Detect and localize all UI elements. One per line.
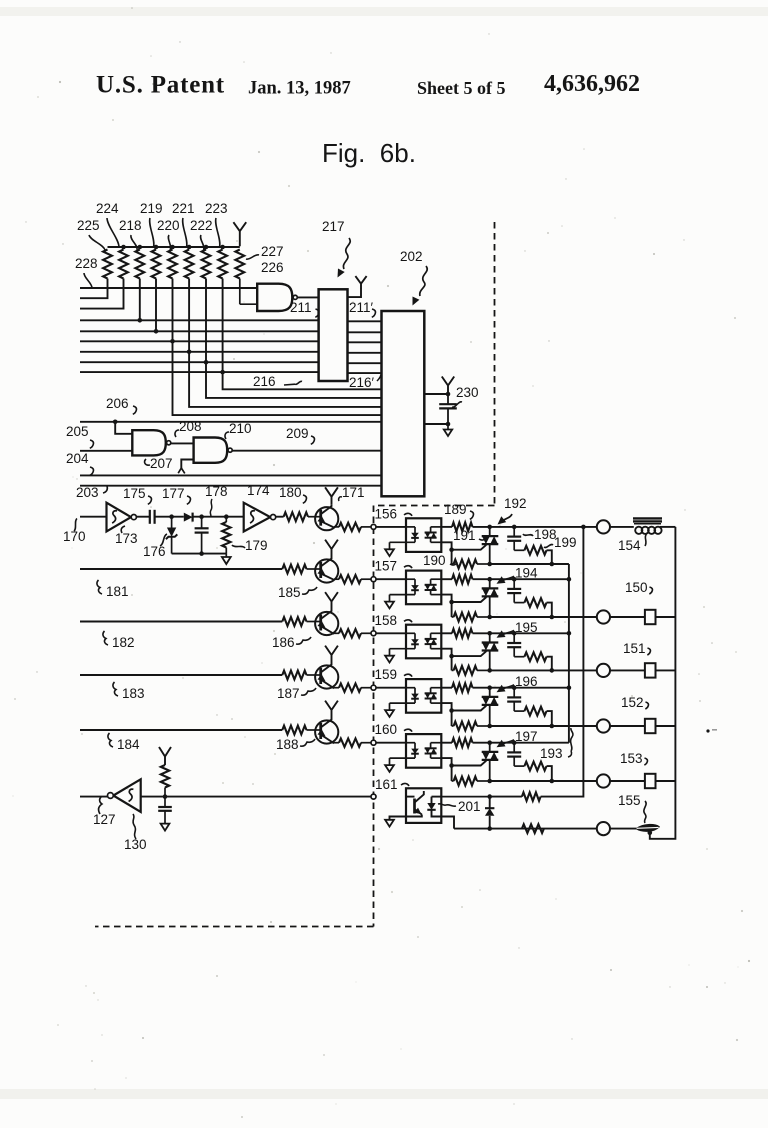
label 206 [106,396,136,414]
wire gate to triac [452,545,487,550]
label 230 [452,385,479,407]
junction dot bottom rail 178 [199,551,204,556]
snubber capacitor ch1 [507,527,524,550]
ground ch6 filter [161,824,170,831]
small terminal (opto 161 input) [371,794,376,799]
big terminal ch3 [597,664,610,677]
svg-text:188: 188 [276,737,299,752]
wire heater to right rail [660,526,675,528]
label 177 [162,486,190,504]
wire line 206 [80,421,382,423]
wire gate node down [451,602,453,617]
svg-text:227: 227 [261,244,284,259]
resistor 223 [218,250,227,279]
label 161 [375,777,409,792]
opto 159 LED [390,688,419,703]
resistor 222 [202,250,211,279]
junction dot bus L7 [187,350,192,355]
svg-text:221: 221 [172,201,195,216]
wire bus line L7 (between 217 and 202) [348,352,382,354]
opto 158 output element [425,633,442,648]
svg-text:205: 205 [66,424,89,439]
junction dot triac bottom ch2 [487,615,492,620]
triac ch3 [482,633,499,670]
snubber capacitor ch4 [507,688,524,711]
svg-text:154: 154 [618,538,641,553]
svg-text:217: 217 [322,219,345,234]
svg-text:222: 222 [190,218,213,233]
junction dot on rail at resistor 4 [154,245,159,250]
junction dot triac top ch5 [487,740,492,745]
wire gate node down [451,656,453,670]
wire bus line L5 (between 217 and 202) [348,331,382,333]
label 180 [279,485,306,503]
junction dot snubber top ch1 [512,525,517,530]
wire resistor to triac top [473,526,490,528]
svg-text:211: 211 [290,300,312,315]
svg-text:206: 206 [106,396,129,411]
label 223 [205,201,228,247]
resistor gate-shunt ch1 [452,560,490,569]
junction dot bus L4 [138,318,143,323]
opto 157 LED [390,579,419,594]
resistor 221 [185,250,194,279]
wire fan line to 202 pin 3 [189,352,381,407]
resistor 219 [152,250,161,279]
transistor 186 with antenna and emitter resistor [308,592,371,637]
junction dot gate node ch2 [449,600,454,605]
ground below cap 230 [444,424,452,436]
label 185 [278,585,317,600]
svg-text:186: 186 [272,635,295,650]
svg-text:152: 152 [621,695,644,710]
label 217 with arrow [322,219,350,278]
svg-text:225: 225 [77,218,100,233]
resistor gate-series ch3 [452,629,473,638]
diode 177 [184,513,193,522]
capacitor ch6 filter [158,797,172,824]
wire fan line to 202 pin 4 [173,341,382,415]
label 211' [349,300,375,317]
junction dot rail A ch2 [567,577,572,582]
label 186 [272,635,311,650]
junction dot gate node ch5 [449,763,454,768]
big terminal ch2 [597,610,610,623]
svg-text:184: 184 [117,737,140,752]
junction dot node 176 [169,514,174,519]
svg-text:156: 156 [375,506,398,521]
wire line 205 (NAND207 input B) [80,450,132,452]
junction dot on rail at resistor 3 [138,245,143,250]
label 190 [423,553,457,568]
junction dot triac top ch1 [487,525,492,530]
junction dot bus L8 [204,360,209,365]
wire fan line to 202 pin 2 [206,362,382,398]
scan speck [706,729,717,733]
wire opto out to resistor [441,632,452,634]
label 130 [124,814,147,852]
wire gate to triac [452,651,487,656]
label 199 [544,535,577,550]
wire line 203 [80,485,382,487]
wire cap175 to diode 177 [155,516,184,518]
wire load to right rail [656,725,676,727]
junction dot triac bottom ch1 [487,562,492,567]
schmitt inverter 174 [244,503,276,532]
junction dot snubber drop ch4 [550,724,555,729]
snubber resistor ch5 [524,762,551,781]
transistor 187 with antenna and emitter resistor [308,646,371,692]
svg-text:199: 199 [554,535,577,550]
label 175 [123,486,151,504]
wire input line 182 [80,621,282,623]
antenna at top rail [233,222,246,246]
resistor 225 [103,250,112,279]
wire ch3 gate row to terminal [490,669,597,671]
wire gate node down [451,550,453,564]
resistor ch6 filter [161,765,169,797]
svg-text:177: 177 [162,486,185,501]
opto 158 LED [390,633,419,648]
junction dot snubber top ch5 [512,740,517,745]
junction dot on rail at resistor 6 [187,245,192,250]
wire opto161 top out [441,796,489,798]
resistor base Q188 [282,726,308,735]
svg-text:218: 218 [119,218,142,233]
wire gate to triac [452,597,487,602]
wire bus line L7 [80,351,319,353]
wire fan line to 202 pin 1 [223,372,382,389]
wire line 204 [80,474,382,476]
label 153 [620,751,647,766]
small terminal (opto 160 input) [371,740,376,745]
wire bus line 228a (NAND input) [80,287,257,289]
opto 156 output element [425,527,442,542]
wire resistor column 8 to bus [222,279,224,373]
wire bus line L6 [80,340,319,342]
wire 202 to cap 230 bottom [424,423,448,425]
wire diode177 to schmitt 174 [193,516,244,518]
wire resistor to triac top [473,687,490,689]
wire right rail [650,527,676,839]
header: sheet [417,78,506,98]
junction dot snubber drop ch2 [550,615,555,620]
label 219 [140,201,163,247]
transistor 171 with antenna and emitter resistor [308,487,371,531]
resistor gate-series ch2 [452,575,473,584]
svg-text:201: 201 [458,799,481,814]
wire resistor column 7 to bus [205,279,207,363]
heater element 154 [633,518,662,534]
wire resistor column 3 to bus [139,279,141,321]
schmitt inverter 173 [107,503,137,532]
wire ch4 top to rail A [514,687,569,689]
wire input line 170 [80,516,107,518]
svg-text:155: 155 [618,793,641,808]
block 217 (shift register) [319,289,348,381]
wire resistor to triac top [473,742,490,744]
label 174 [247,483,270,498]
wire load to right rail [656,780,676,782]
big terminal ch4 [597,719,610,732]
label 176 [143,534,167,559]
resistor 220 [168,250,177,279]
ground opto 156 [385,542,394,556]
svg-text:173: 173 [115,531,138,546]
wire gate to triac [452,706,487,711]
load 151 [645,663,656,677]
load 152 [645,719,656,733]
snubber capacitor ch3 [507,633,524,656]
wire rail B [541,527,584,797]
wire opto out to resistor [441,526,452,528]
resistor gate-shunt ch4 [452,722,490,731]
label 171 [339,485,365,501]
label 158 [375,613,413,628]
label 181 [97,580,129,599]
label 225 [77,218,105,250]
wire ch6 upper row to resistor [490,796,522,798]
wire terminal to load 151 [610,669,645,671]
junction dot snubber top ch2 [512,577,517,582]
label 203 [76,485,107,500]
svg-text:4,636,962: 4,636,962 [544,71,640,97]
junction dot rail A ch3 [567,631,572,636]
svg-text:210: 210 [229,421,252,436]
junction dot triac bottom ch5 [487,779,492,784]
wire triac top to snubber [490,742,515,744]
label 155 [618,793,646,823]
wire terminal to fuse 155 [610,828,637,830]
capacitor 175 [150,510,155,524]
junction dot node 178 [199,514,204,519]
inverter 130 (pointing left) [108,779,141,812]
header: U.S. Patent [96,72,225,99]
label 152 [621,695,648,710]
svg-text:157: 157 [375,559,398,574]
snubber capacitor ch2 [507,579,524,602]
svg-text:211′: 211′ [349,300,374,315]
label 224 [96,201,119,247]
wire bus line L8 (between 217 and 202) [348,362,382,364]
wire 202 to cap 230 top [424,393,448,395]
snubber capacitor ch5 [507,743,524,766]
wire ch3 top to rail A [514,632,569,634]
junction dot node 179 [224,514,229,519]
wire terminal to opto 160 [376,742,406,744]
wire terminal to load 150 [610,616,645,618]
svg-text:Fig. 6b.: Fig. 6b. [322,138,416,168]
wire line 209 (NAND210 output) [232,450,381,452]
wire 173 out to cap 175 [136,516,149,518]
dashed boundary (right of 202) [494,222,496,506]
svg-text:203: 203 [76,485,99,500]
load 150 [645,610,656,624]
svg-text:220: 220 [157,218,180,233]
junction dot on rail at resistor 8 [220,245,225,250]
wire ch5 top to rail A end [514,742,569,744]
wire opto lower out [441,595,451,602]
svg-text:216: 216 [253,374,276,389]
junction dot line 206 [113,420,118,425]
small terminal (opto 156 input) [371,524,376,529]
junction dot gate node ch1 [449,547,454,552]
optocoupler 157 box [406,571,441,605]
opto 160 LED [390,743,419,758]
svg-text:158: 158 [375,613,398,628]
triac ch4 [482,688,499,726]
svg-text:204: 204 [66,451,89,466]
wire input line 181 [80,568,282,570]
svg-text:207: 207 [150,456,173,471]
label 194 with arrow [497,566,539,584]
label 170 [63,519,86,545]
antenna ch6 filter [159,747,171,765]
label 127 [93,797,116,827]
ground opto 157 [385,595,394,609]
wire ch6 lower row [454,828,597,830]
wire 174 out to resistor 180 [276,516,284,518]
junction dot snubber top ch3 [512,631,517,636]
junction dot triac top ch3 [487,631,492,636]
fuse 155 [636,824,660,835]
junction dot gate node ch3 [449,654,454,659]
label 188 [276,737,315,752]
load 153 [645,774,656,788]
label 197 with arrow [497,729,538,747]
junction dot triac bottom ch3 [487,668,492,673]
wire bus line L4 [80,319,319,321]
resistor gate-series ch5 [452,738,473,747]
transistor 188 with antenna and emitter resistor [308,701,371,747]
junction dot gate node ch4 [449,708,454,713]
wire terminal to load 153 [610,780,645,782]
junction dot rail A ch4 [567,685,572,690]
wire ch2 top to rail A [514,578,569,580]
resistor 180 [284,512,308,521]
svg-text:190: 190 [423,553,446,568]
label 178 [205,484,228,517]
optocoupler 158 box [406,625,441,659]
wire rail A [568,564,570,743]
wire terminal to load 152 [610,725,645,727]
junction dot snubber drop ch1 [550,562,555,567]
opto 157 output element [425,579,442,594]
svg-text:183: 183 [122,686,145,701]
junction dot bus L9 [220,370,225,375]
svg-text:192: 192 [504,496,527,511]
svg-text:223: 223 [205,201,228,216]
label 216 [253,374,302,389]
dashed boundary (top of opto section) [374,505,495,507]
big terminal ch5 [597,774,610,787]
wire NAND226 input A [240,279,257,305]
NAND gate 207 [132,430,170,455]
wire resistor to triac top [473,632,490,634]
wire bus line to resistor 224 [80,279,124,309]
resistor base Q186 [282,617,308,626]
label 151 [623,641,650,656]
svg-text:151: 151 [623,641,646,656]
wire input line 183 [80,674,282,676]
resistor 218 [135,250,144,279]
dashed boundary (vertical through terminals) [373,506,375,927]
label 211 [290,300,319,317]
zener diode 176 [166,517,177,554]
svg-text:195: 195 [515,620,538,635]
triac ch5 [482,743,499,781]
wire gate to triac [452,761,487,766]
junction dot rail B top [581,525,586,530]
label 150 [625,580,652,595]
header: date [248,79,351,99]
wire ch2 gate row to terminal [490,616,597,618]
junction dot on rail at resistor 2 [121,245,126,250]
big terminal ch1 [597,520,610,533]
small terminal (opto 158 input) [371,631,376,636]
ground opto 160 [385,758,394,772]
svg-text:219: 219 [140,201,163,216]
label 208 [175,419,202,437]
junction dot cap230 top [446,392,451,397]
resistor gate-series ch1 [452,523,473,532]
svg-text:182: 182 [112,635,135,650]
wire bus line L8 [80,361,319,363]
transistor 185 with antenna and emitter resistor [308,540,371,584]
resistor base Q187 [282,671,308,680]
svg-text:226: 226 [261,260,284,275]
junction dot bus L6 [170,339,175,344]
wire bus line L6 (between 217 and 202) [348,341,382,343]
opto 161 output diode 201a [427,797,441,817]
wire bus line L5 [80,330,319,332]
svg-text:202: 202 [400,249,423,264]
wire bus line L9 [80,371,319,373]
junction dot triac bottom ch4 [487,724,492,729]
wire terminal to opto 157 [376,578,406,580]
label 182 [103,631,135,650]
resistor 227 [235,250,244,279]
label 218 [119,218,142,250]
resistor base Q185 [282,565,308,574]
wire ch1 gate row to rail A [490,563,569,565]
snubber resistor ch4 [524,707,551,726]
wire 217 output stub 211' [348,288,362,297]
label 156 [375,506,413,521]
optocoupler 156 box [406,518,441,552]
supply rail (top of pull-up resistor bank) [108,246,240,248]
wire ch6 upper row [423,789,425,791]
wire input line 127 [80,796,107,798]
capacitor 230 [439,394,457,424]
figure caption Fig. 6b. [322,138,416,168]
svg-text:179: 179 [245,538,268,553]
wire terminal to opto 158 [376,632,406,634]
label 159 [375,667,413,682]
wire ch1 filter bottom rail [172,553,227,555]
svg-text:181: 181 [106,584,129,599]
wire load to right rail [656,669,676,671]
label 204 [66,451,93,475]
resistor gate-shunt ch3 [452,666,490,675]
wire triac top to snubber [490,578,515,580]
junction dot triac top ch4 [487,685,492,690]
svg-text:Sheet 5 of 5: Sheet 5 of 5 [417,78,506,98]
label 189 [444,502,473,519]
wire opto161 bottom out [441,817,454,829]
junction dot on rail at resistor 7 [204,245,209,250]
label 210 [225,421,252,439]
